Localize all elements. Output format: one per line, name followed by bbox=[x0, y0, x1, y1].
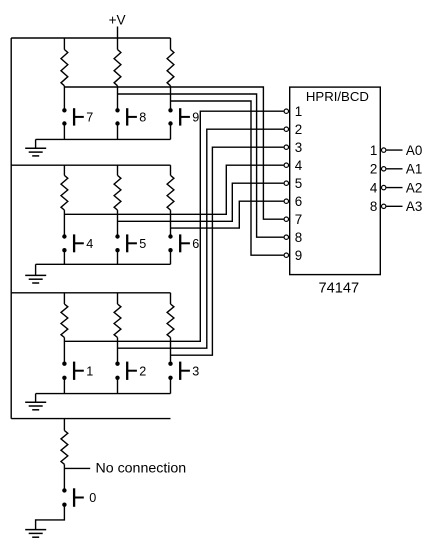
svg-text:1: 1 bbox=[370, 143, 377, 158]
wire switch 5 to ground row bbox=[117, 250, 119, 264]
svg-text:A1: A1 bbox=[406, 162, 422, 177]
wire ground row 1 bbox=[36, 138, 171, 140]
resistor pull-up key 0 (no connection) bbox=[63, 419, 65, 431]
wire key 0 column node bbox=[63, 464, 65, 490]
resistor pull-up key 6 bbox=[170, 165, 172, 175]
wire key 9 to encoder pin 9 bbox=[171, 101, 284, 255]
svg-text:5: 5 bbox=[295, 176, 302, 191]
wire key 6 column node bbox=[170, 210, 172, 236]
svg-text:8: 8 bbox=[370, 199, 377, 214]
pin input 9 (active-low bubble) bbox=[284, 253, 288, 257]
switch 6 pushbutton bbox=[168, 234, 172, 238]
wire switch 2 to ground row bbox=[117, 378, 119, 394]
wire ground row 3 bbox=[36, 393, 171, 395]
switch 8 pushbutton bbox=[115, 108, 119, 112]
ground bottom bbox=[25, 529, 46, 531]
svg-text:A2: A2 bbox=[406, 180, 422, 195]
op IC U1 74147 HPRI/BCD priority encoder bbox=[290, 87, 381, 275]
svg-text:HPRI/BCD: HPRI/BCD bbox=[306, 89, 369, 104]
switch 5 pushbutton bbox=[115, 234, 119, 238]
wire key 4 to encoder pin 4 bbox=[64, 165, 283, 214]
wire key 8 column node bbox=[117, 86, 119, 111]
ground row 2 bbox=[35, 264, 37, 275]
pin input 1 (active-low bubble) bbox=[284, 109, 288, 113]
pin input 8 (active-low bubble) bbox=[284, 235, 288, 239]
svg-text:A0: A0 bbox=[406, 143, 422, 158]
resistor pull-up key 8 bbox=[117, 38, 119, 50]
wire key 7 to encoder pin 7 bbox=[64, 87, 283, 219]
switch 9 pushbutton bbox=[168, 108, 172, 112]
switch 7 pushbutton bbox=[62, 108, 66, 112]
wire bottom row feed bbox=[11, 418, 170, 420]
wire +V rail row 1 bbox=[11, 37, 170, 39]
pin input 2 (active-low bubble) bbox=[284, 127, 288, 131]
pin input 7 (active-low bubble) bbox=[284, 217, 288, 221]
svg-text:4: 4 bbox=[295, 158, 303, 173]
ground row 1 bbox=[35, 139, 37, 148]
resistor pull-up key 3 bbox=[170, 293, 172, 304]
wire switch 1 to ground row bbox=[63, 378, 65, 394]
svg-text:9: 9 bbox=[295, 248, 302, 263]
wire key 2 to encoder pin 2 bbox=[118, 129, 284, 348]
wire switch 0 to ground bbox=[36, 505, 65, 530]
svg-text:No connection: No connection bbox=[96, 460, 187, 476]
wire +V stem bbox=[117, 27, 119, 39]
wire switch 3 to ground row bbox=[170, 378, 172, 394]
wire key 2 column node bbox=[117, 338, 119, 364]
svg-text:2: 2 bbox=[370, 162, 377, 177]
wire key 8 to encoder pin 8 bbox=[118, 94, 284, 237]
svg-text:7: 7 bbox=[86, 111, 93, 125]
node no connection stub bbox=[64, 467, 90, 469]
wire key 5 column node bbox=[117, 210, 119, 236]
svg-text:5: 5 bbox=[139, 237, 146, 251]
switch 2 pushbutton bbox=[115, 362, 119, 366]
wire switch 8 to ground row bbox=[117, 124, 119, 140]
pin input 6 (active-low bubble) bbox=[284, 199, 288, 203]
wire key 1 column node bbox=[63, 338, 65, 364]
resistor pull-up key 1 bbox=[63, 293, 65, 304]
svg-text:0: 0 bbox=[89, 491, 96, 505]
svg-text:4: 4 bbox=[370, 180, 378, 195]
svg-text:2: 2 bbox=[295, 122, 302, 137]
wire switch 7 to ground row bbox=[63, 124, 65, 140]
svg-text:6: 6 bbox=[192, 237, 199, 251]
wire key 1 to encoder pin 1 bbox=[64, 111, 283, 341]
svg-text:9: 9 bbox=[192, 111, 199, 125]
svg-text:8: 8 bbox=[295, 230, 302, 245]
wire +V rail row 2 bbox=[11, 164, 170, 166]
pin input 3 (active-low bubble) bbox=[284, 145, 288, 149]
svg-text:+V: +V bbox=[109, 12, 126, 27]
svg-text:8: 8 bbox=[139, 111, 146, 125]
pin input 4 (active-low bubble) bbox=[284, 163, 288, 167]
resistor pull-up key 9 bbox=[170, 38, 172, 50]
switch 1 pushbutton bbox=[62, 362, 66, 366]
svg-text:3: 3 bbox=[295, 140, 302, 155]
svg-text:4: 4 bbox=[86, 237, 93, 251]
wire key 6 to encoder pin 6 bbox=[171, 201, 284, 228]
wire key 3 column node bbox=[170, 338, 172, 364]
svg-text:6: 6 bbox=[295, 194, 302, 209]
wire switch 6 to ground row bbox=[170, 250, 172, 264]
svg-text:3: 3 bbox=[192, 364, 199, 378]
resistor pull-up key 4 bbox=[63, 165, 65, 175]
wire +V rail row 3 bbox=[11, 292, 170, 294]
wire key 7 column node bbox=[63, 86, 65, 111]
switch 0 pushbutton bbox=[62, 488, 66, 492]
wire key 9 column node bbox=[170, 86, 172, 111]
resistor pull-up key 7 bbox=[63, 38, 65, 50]
switch 4 pushbutton bbox=[62, 234, 66, 238]
wire left vertical bus bbox=[10, 38, 12, 419]
wire key 5 to encoder pin 5 bbox=[118, 183, 284, 221]
resistor pull-up key 5 bbox=[117, 165, 119, 175]
svg-text:7: 7 bbox=[295, 212, 302, 227]
wire ground row 2 bbox=[36, 263, 171, 265]
svg-text:2: 2 bbox=[139, 364, 146, 378]
pin input 5 (active-low bubble) bbox=[284, 181, 288, 185]
wire switch 9 to ground row bbox=[170, 124, 172, 140]
ground row 3 bbox=[35, 394, 37, 403]
wire key 3 to encoder pin 3 bbox=[171, 147, 284, 355]
svg-text:A3: A3 bbox=[406, 199, 422, 214]
wire switch 4 to ground row bbox=[63, 250, 65, 264]
svg-text:1: 1 bbox=[86, 364, 93, 378]
svg-text:74147: 74147 bbox=[319, 281, 360, 297]
svg-text:1: 1 bbox=[295, 104, 302, 119]
resistor pull-up key 2 bbox=[117, 293, 119, 304]
wire key 4 column node bbox=[63, 210, 65, 236]
switch 3 pushbutton bbox=[168, 362, 172, 366]
